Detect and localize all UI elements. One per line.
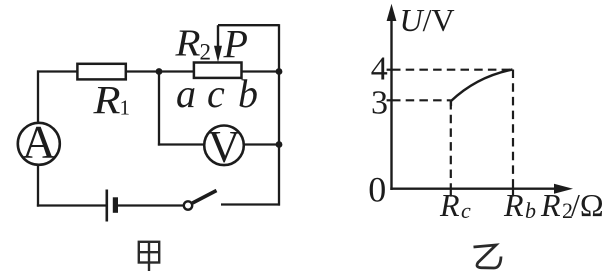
- node junction voltmeter right: [276, 141, 283, 148]
- voltmeter V: [204, 126, 244, 166]
- wire left vertical upper: [37, 70, 39, 123]
- svg-text:b: b: [525, 198, 536, 223]
- svg-text:c: c: [207, 71, 225, 116]
- svg-text:P: P: [223, 22, 248, 67]
- battery long plate: [106, 190, 109, 222]
- dashed line x=Rc: [450, 101, 452, 188]
- wire bottom to battery: [37, 204, 106, 206]
- node junction left of potentiometer: [156, 68, 163, 75]
- curve U(R2): [451, 70, 513, 102]
- x tick Rc: [450, 189, 452, 197]
- svg-text:V: V: [208, 122, 241, 172]
- wire top-left horizontal: [37, 70, 78, 72]
- graph y-axis: [390, 10, 392, 190]
- wire switch to right vertical: [221, 203, 280, 205]
- node junction right of potentiometer: [276, 68, 283, 75]
- dashed line x=Rb: [512, 70, 514, 189]
- wire potentiometer right terminal: [242, 70, 280, 72]
- svg-text:0: 0: [368, 170, 386, 210]
- wire wiper to right vertical (top): [218, 24, 279, 26]
- caption 乙 (drawn): [474, 245, 502, 268]
- wire voltmeter to right vertical: [244, 143, 279, 145]
- svg-text:R: R: [92, 78, 120, 123]
- svg-text:3: 3: [371, 85, 388, 122]
- y tick 3: [387, 99, 393, 101]
- potentiometer R2 body: [194, 63, 242, 78]
- graph x-axis: [390, 187, 558, 189]
- svg-text:c: c: [461, 198, 471, 223]
- wire voltmeter branch vertical: [158, 72, 160, 146]
- svg-text:/Ω: /Ω: [571, 187, 604, 223]
- svg-text:R: R: [439, 187, 460, 223]
- svg-text:4: 4: [371, 51, 388, 88]
- wiper P arrow: [214, 25, 222, 62]
- wire right vertical: [278, 24, 280, 206]
- wire left vertical lower: [37, 165, 39, 207]
- svg-text:R: R: [503, 187, 524, 223]
- caption 甲 (drawn): [139, 242, 159, 271]
- x tick Rb: [512, 189, 514, 197]
- wire battery to switch: [118, 204, 184, 206]
- svg-text:U/V: U/V: [400, 2, 455, 38]
- switch lever: [193, 191, 217, 204]
- dashed line U=3: [392, 99, 451, 101]
- dashed line U=4: [392, 69, 513, 71]
- svg-text:R: R: [540, 187, 561, 223]
- svg-text:R: R: [174, 23, 200, 65]
- svg-text:A: A: [22, 117, 56, 169]
- svg-text:a: a: [176, 71, 196, 116]
- ammeter A: [18, 123, 60, 165]
- svg-text:2: 2: [200, 40, 212, 65]
- switch pivot: [184, 201, 192, 209]
- svg-text:1: 1: [120, 96, 131, 120]
- battery short thick plate: [113, 197, 118, 213]
- wire to voltmeter left: [158, 143, 205, 145]
- resistor R1: [77, 64, 125, 80]
- wire R1 to potentiometer: [126, 70, 194, 72]
- y tick 4: [387, 69, 393, 71]
- curve start stub: [450, 101, 452, 106]
- svg-text:b: b: [238, 71, 258, 116]
